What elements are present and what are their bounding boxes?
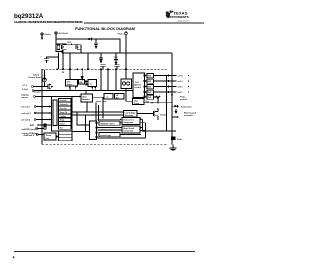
transistor Q7 pass: [114, 65, 120, 69]
transistor Q1: [56, 44, 67, 50]
wire chg pump out: [144, 101, 172, 104]
svg-text:current: current: [21, 96, 28, 99]
svg-text:0.7 V: 0.7 V: [23, 85, 28, 87]
wire balance row 3: [145, 86, 172, 88]
pin pad squares on IC top edge: [56, 68, 127, 70]
pin VC4 stub: [30, 124, 52, 127]
wire balance row 2: [145, 80, 172, 82]
pin TOUT stub: [22, 132, 45, 137]
capacitor C4 regulator: [41, 52, 60, 69]
node rail junction A: [81, 52, 82, 53]
ground symbol: [170, 144, 177, 151]
svg-text:TS open: TS open: [33, 91, 42, 93]
block mux narrow U16: [90, 121, 98, 140]
diode D3 pack: [171, 102, 192, 113]
crystal Y1: [43, 124, 47, 130]
svg-text:cell volt 3: cell volt 3: [21, 119, 31, 122]
svg-text:cell 2: cell 2: [178, 87, 184, 89]
pin TS stub: [23, 85, 45, 87]
svg-text:1kΩ: 1kΩ: [148, 97, 152, 99]
node charge pump junction: [95, 38, 96, 39]
svg-text:chk/Pack D: chk/Pack D: [24, 135, 35, 137]
svg-text:cell volt 1: cell volt 1: [21, 106, 31, 109]
capacitor C1: [94, 39, 98, 48]
pin squares under blocks: [69, 86, 96, 90]
svg-text:FUNCTIONAL BLOCK DIAGRAM: FUNCTIONAL BLOCK DIAGRAM: [75, 26, 135, 31]
block low voltage translator U7: [124, 111, 138, 118]
svg-text:Low Voltage: Low Voltage: [125, 111, 135, 114]
node BAT junction: [55, 43, 56, 44]
pin stub lower: [167, 130, 177, 131]
transistor Q2: [76, 44, 81, 53]
block current sense amp U4: [96, 94, 113, 103]
svg-text:4.2 V/cell: 4.2 V/cell: [59, 32, 69, 35]
diode D2 body: [71, 43, 74, 45]
svg-text:Short Circuit: Short Circuit: [123, 127, 134, 130]
pin pack minus pad: [171, 136, 184, 141]
transistor Q4: [156, 96, 160, 103]
node rail junction B: [100, 52, 101, 53]
wire right vertical O: [151, 76, 167, 132]
page title FUNCTIONAL BLOCK DIAGRAM: [75, 26, 135, 31]
block comparator core U13: [88, 80, 97, 87]
svg-text:cell 1: cell 1: [178, 92, 184, 94]
block charge pump U6: [133, 99, 145, 105]
svg-text:4: 4: [13, 255, 15, 259]
wire rail drop E: [69, 53, 71, 74]
wire battery top rail: [56, 38, 88, 40]
pin stub cell1: [171, 91, 189, 94]
wire pad drop H: [107, 70, 109, 91]
svg-text:terminals: terminals: [184, 114, 194, 117]
wire pack rail vertical: [171, 53, 173, 144]
header subtitle document line: [14, 20, 83, 24]
wire mid vertical N: [145, 123, 146, 138]
header rule: [84, 22, 204, 23]
block comparator list: [59, 99, 72, 130]
pin stub cell3: [171, 80, 189, 83]
wire mid vertical M: [143, 119, 153, 131]
resistor R3: [147, 79, 154, 83]
capacitor C2: [99, 53, 103, 63]
diode D1: [88, 38, 91, 41]
resistor R6: [147, 95, 154, 99]
pin Pack+ terminal P1: [41, 33, 52, 39]
wire corner drop K: [85, 115, 87, 132]
svg-text:Pack–: Pack–: [177, 139, 184, 141]
block ADC U12: [66, 80, 78, 87]
wire balance row 1: [145, 75, 172, 77]
wire pad drop I: [115, 70, 117, 91]
wire osc to list: [56, 136, 59, 138]
svg-text:xtal/OVD clock: xtal/OVD clock: [22, 128, 37, 131]
label temp sense: [28, 73, 43, 79]
wire balance row 5: [145, 97, 158, 103]
svg-text:Comparator: Comparator: [123, 121, 133, 124]
wire rail drop F: [87, 53, 89, 69]
svg-text:Cell Bal: Cell Bal: [60, 116, 67, 118]
wire FET link: [67, 43, 78, 45]
current source I1: [43, 70, 47, 87]
svg-text:Osc: Osc: [46, 138, 50, 140]
svg-text:1kΩ: 1kΩ: [148, 76, 152, 78]
svg-text:2-, 3-, AND 4-CELL LITHIUM-ION: 2-, 3-, AND 4-CELL LITHIUM-ION OR LITHIU…: [14, 20, 83, 24]
block mux column: [53, 100, 57, 126]
block cell mux outer U1: [52, 97, 73, 132]
wire comparator feed 3: [97, 127, 122, 129]
svg-text:Ref: Ref: [60, 128, 63, 130]
svg-text:Temp: Temp: [60, 120, 64, 122]
block cell balance control U15: [133, 73, 145, 98]
TI logo icon: [166, 10, 174, 18]
pin SRN stub: [21, 94, 81, 98]
label OVP: [67, 42, 72, 44]
wire source return: [56, 44, 62, 53]
wire SM down link: [86, 102, 87, 113]
svg-text:1kΩ: 1kΩ: [148, 81, 152, 83]
pin RCLK stub: [22, 128, 45, 131]
pin VC2 stub: [22, 112, 52, 115]
node pack junction: [171, 94, 173, 96]
resistor R5: [147, 90, 154, 94]
transistor Q5 precharge: [137, 108, 166, 120]
svg-text:1kΩ: 1kΩ: [148, 92, 152, 94]
svg-text:chg: chg: [146, 101, 149, 103]
pin stub cell2: [171, 86, 189, 89]
wire translator bus upper: [72, 111, 124, 112]
svg-text:SystemOut: SystemOut: [181, 106, 192, 109]
wire pad drop G: [100, 70, 102, 91]
wire logic out: [97, 135, 145, 138]
wire diode to corner: [91, 39, 120, 53]
pin pack sense stub: [172, 112, 197, 118]
IC left edge: [41, 69, 43, 144]
header part number title: [14, 13, 44, 20]
TI logo www.ti.com: [177, 19, 188, 22]
block overcurrent comparator U9: [122, 118, 140, 125]
svg-text:CHG/DSG shifter: CHG/DSG shifter: [100, 122, 115, 125]
svg-text:3.3mV: 3.3mV: [22, 89, 29, 91]
wire BAT vertical: [55, 34, 57, 44]
resistor R4: [147, 84, 154, 88]
wire corner drop J: [77, 112, 90, 125]
node rail junction C: [115, 52, 116, 53]
svg-text:contact: contact: [180, 98, 187, 101]
svg-text:Pack +: Pack +: [118, 33, 126, 35]
pin VCC terminal P3: [118, 32, 128, 35]
wire feed drop Q: [98, 105, 100, 121]
TI logo INSTRUMENTS text: [167, 15, 189, 19]
svg-text:INSTRUMENTS: INSTRUMENTS: [167, 15, 189, 19]
footer rule: [14, 251, 195, 252]
svg-text:State: State: [82, 95, 87, 98]
svg-text:Machine: Machine: [82, 99, 90, 101]
svg-text:cell 3: cell 3: [178, 81, 184, 83]
pin SRP stub: [22, 89, 133, 91]
wire gate drive drop: [62, 50, 64, 74]
IC bottom edge dashed: [42, 143, 168, 145]
TI logo TEXAS text: [174, 12, 188, 16]
svg-text:Current Source: Current Source: [28, 76, 43, 79]
block level shift U8: [99, 121, 120, 125]
svg-text:cell volt 2: cell volt 2: [22, 112, 32, 115]
svg-text:Pack+: Pack+: [45, 34, 52, 36]
wire translator bus lower: [72, 114, 124, 116]
svg-text:cell 4: cell 4: [178, 75, 184, 78]
block short circuit comparator U10: [122, 126, 140, 133]
block oscillator U2: [44, 133, 56, 140]
wire feed drop P: [95, 103, 97, 122]
svg-text:0.5mA: 0.5mA: [160, 114, 166, 117]
pin BAT terminal P2: [55, 32, 68, 35]
wire VCC vertical: [125, 34, 127, 79]
wire comparator feed 2: [120, 122, 122, 124]
wire comparator outs: [140, 118, 146, 130]
resistor R2: [147, 73, 154, 77]
wire comparator feed 1: [97, 118, 122, 120]
label pack positive: [180, 97, 187, 102]
footer page number: [13, 255, 15, 259]
wire bus to state machine: [85, 90, 87, 94]
wire chgpump input: [126, 89, 133, 102]
resistor R1: [57, 45, 59, 50]
block register list lower: [59, 131, 73, 141]
wire list out L: [72, 131, 90, 132]
wire ADC top feeds: [70, 70, 83, 80]
transistor Q3 thermistor: [33, 84, 53, 94]
svg-text:Ref: Ref: [116, 98, 119, 100]
wire balance row 4: [145, 91, 172, 93]
svg-text:Translator: Translator: [125, 114, 134, 117]
capacitor C3: [114, 53, 119, 64]
node bus dots: [100, 90, 129, 91]
svg-text:Select: Select: [67, 83, 73, 86]
svg-text:control logic: control logic: [100, 134, 111, 137]
svg-text:sense_amp: sense_amp: [96, 101, 107, 103]
transistor Q6 pass: [100, 65, 106, 69]
wire ADC to core arrows: [85, 81, 89, 86]
pin VC1 stub: [21, 106, 52, 109]
svg-text:bq29312A: bq29312A: [14, 13, 44, 20]
pin VC3 stub: [21, 119, 52, 122]
IC top edge dashed: [42, 68, 168, 70]
svg-text:Overcurrent: Overcurrent: [123, 119, 134, 122]
node rail junction D: [119, 52, 120, 53]
block state machine U3: [81, 94, 93, 102]
svg-text:Comparator: Comparator: [123, 130, 133, 133]
pin stub cell4: [171, 75, 189, 78]
svg-text:Control: Control: [134, 86, 141, 89]
block charge pump caps U14: [121, 79, 132, 89]
svg-text:www.ti.com: www.ti.com: [177, 19, 188, 22]
block reference U5: [115, 94, 125, 100]
block sample hold U17: [79, 80, 85, 85]
wire comparator feed 4: [97, 129, 122, 131]
svg-text:1kΩ: 1kΩ: [148, 87, 152, 89]
main output rail: [62, 52, 172, 54]
wire SM right link: [93, 97, 104, 118]
pin squares on balance box: [144, 75, 146, 98]
block drive logic U11: [99, 133, 120, 137]
